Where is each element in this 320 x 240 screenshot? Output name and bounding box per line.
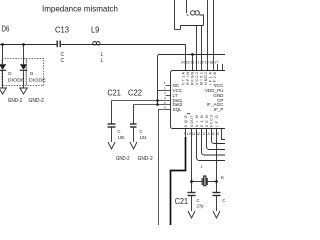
svg-text:IF1A: IF1A: [209, 71, 213, 85]
svg-text:C1B: C1B: [200, 115, 204, 128]
svg-text:VCO: VCO: [205, 115, 209, 127]
svg-text:C13: C13: [55, 25, 69, 35]
svg-text:VT1A: VT1A: [182, 71, 186, 85]
svg-text:VCC3: VCC3: [210, 115, 214, 127]
svg-text:GND-2: GND-2: [29, 98, 44, 104]
svg-text:104: 104: [140, 135, 148, 140]
svg-text:SQO: SQO: [184, 115, 188, 127]
svg-text:1: 1: [164, 81, 166, 85]
svg-text:L9: L9: [91, 25, 99, 35]
svg-text:RFGN: RFGN: [191, 72, 195, 85]
svg-text:D6: D6: [2, 24, 10, 34]
svg-text:L: L: [101, 58, 104, 64]
svg-text:VCC2: VCC2: [195, 72, 199, 85]
svg-text:C21: C21: [107, 87, 121, 97]
svg-text:24 23 22 21 20 19 18 17: 24 23 22 21 20 19 18 17: [181, 60, 218, 64]
svg-text:GND-2: GND-2: [8, 98, 23, 104]
svg-text:GND-2: GND-2: [116, 156, 130, 162]
svg-text:Impedance mismatch: Impedance mismatch: [42, 4, 118, 13]
svg-text:27p: 27p: [197, 204, 205, 209]
svg-text:C: C: [223, 198, 226, 203]
svg-text:SQL: SQL: [173, 107, 183, 112]
svg-text:IF2B: IF2B: [213, 71, 217, 85]
svg-text:105: 105: [118, 135, 126, 140]
svg-text:DIODE: DIODE: [29, 77, 46, 82]
svg-text:IF_P: IF_P: [214, 107, 224, 112]
svg-text:DIODE: DIODE: [8, 77, 25, 82]
svg-text:GND2: GND2: [204, 72, 208, 85]
svg-text:XIN: XIN: [195, 115, 199, 127]
svg-text:C21: C21: [175, 196, 188, 206]
svg-text:GND-2: GND-2: [138, 156, 153, 162]
svg-text:C: C: [61, 58, 65, 64]
svg-text:C: C: [197, 198, 200, 203]
svg-text:C: C: [118, 129, 121, 134]
svg-text:C22: C22: [128, 87, 142, 97]
svg-text:C: C: [140, 129, 143, 134]
svg-text:XOUT: XOUT: [190, 115, 194, 128]
svg-text:MIX1: MIX1: [200, 72, 204, 85]
